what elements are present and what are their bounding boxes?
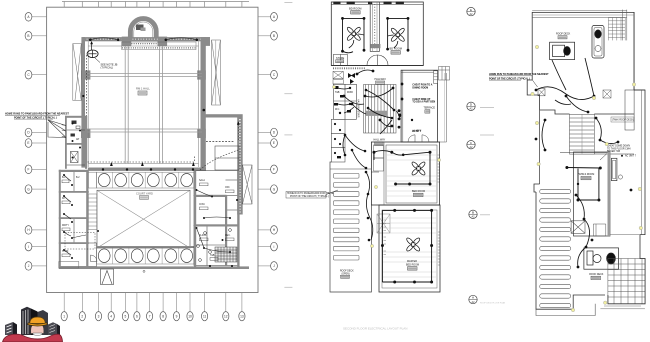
svg-text:HOME RUN TO PANELBOARD FROM TH: HOME RUN TO PANELBOARD FROM THE NEAREST	[489, 73, 549, 76]
east rooms outlet circles	[197, 229, 232, 262]
mid bottom rooms inner	[382, 145, 437, 288]
top grid line	[62, 1, 249, 3]
svg-text:10: 10	[188, 314, 192, 318]
whils wiring dots	[565, 166, 601, 202]
arch label blob	[136, 25, 144, 31]
svg-text:AC KIT 7: AC KIT 7	[412, 130, 422, 133]
svg-text:RM 1 HALL: RM 1 HALL	[136, 87, 150, 91]
left wall pilaster upper	[81, 70, 90, 79]
bathroom block	[584, 248, 619, 269]
hall beam horizontal 1	[85, 74, 202, 77]
grid bubble 11	[202, 293, 208, 321]
svg-text:7: 7	[149, 314, 151, 318]
main stair mid	[364, 85, 397, 134]
shaft footing hatch	[370, 44, 380, 48]
grid bubble 10	[187, 293, 193, 321]
see note label	[95, 58, 118, 70]
left cluster room lower	[66, 144, 86, 165]
top wall dotted texture	[84, 38, 209, 40]
svg-text:(OPEN): (OPEN)	[342, 273, 350, 275]
left strip fixtures	[334, 123, 341, 158]
parapet corner lines	[532, 10, 627, 41]
deck corridor dots	[365, 171, 371, 242]
stair right dots	[398, 109, 401, 128]
mid device dots	[343, 70, 414, 128]
svg-text:ROOF DECK: ROOF DECK	[589, 273, 604, 276]
grid bubble 12	[223, 293, 229, 321]
svg-text:CHEAT DOME DOWN: CHEAT DOME DOWN	[607, 145, 630, 148]
bottom numbered grid bubbles	[61, 293, 245, 321]
bed room 2F label	[412, 190, 425, 197]
grid bubble 7	[147, 293, 153, 321]
ceiling fan F3	[411, 161, 426, 176]
grid bubble 4	[108, 293, 114, 321]
svg-text:B: B	[472, 211, 474, 215]
west annex wires	[64, 175, 86, 255]
bedroom2F dots	[373, 151, 432, 186]
grid bubble 9	[173, 293, 179, 321]
svg-text:ROOF DECK FLOOR PLAN: ROOF DECK FLOOR PLAN	[480, 302, 506, 305]
lower deck boundary	[536, 192, 605, 309]
wiring lower right	[576, 195, 590, 267]
mid hallway strip closets	[374, 142, 385, 205]
fridge counter	[592, 26, 604, 59]
terrace strip east	[438, 73, 447, 142]
mid wires cluster	[344, 70, 393, 134]
corridor wire arrow	[237, 121, 240, 140]
home run note right	[489, 73, 549, 87]
logo building right	[48, 322, 60, 335]
svg-text:F: F	[28, 168, 30, 172]
roof deck label top	[556, 33, 571, 39]
svg-text:8: 8	[162, 314, 164, 318]
small circle below courtyard	[143, 270, 145, 272]
annex dashed circuit	[65, 233, 95, 250]
svg-text:F: F	[273, 168, 275, 172]
svg-text:STORE: STORE	[336, 57, 345, 60]
lower-left deck outline	[330, 162, 371, 292]
svg-text:KIT.: KIT.	[62, 198, 66, 200]
svg-text:REC.: REC.	[225, 235, 231, 237]
dining wire	[397, 111, 402, 120]
grid bubble 1	[61, 293, 67, 321]
roof parapet double top	[532, 14, 634, 16]
svg-text:I: I	[274, 245, 275, 249]
arcade dots top	[102, 168, 194, 170]
svg-text:3: 3	[98, 314, 100, 318]
svg-text:BD ROOM: BD ROOM	[349, 6, 361, 10]
master joists	[383, 218, 436, 277]
svg-text:POINT OF THE CIRCUIT ( TYPICAL: POINT OF THE CIRCUIT ( TYPICAL )	[489, 77, 530, 80]
courtyard rect	[97, 190, 190, 248]
grid bubble 8	[160, 293, 166, 321]
svg-text:E: E	[470, 8, 472, 12]
stair hatch west	[88, 194, 96, 230]
svg-text:CHEAT DIME UP: CHEAT DIME UP	[412, 98, 430, 101]
right wall pilaster lower	[197, 129, 206, 138]
master bed room label	[406, 260, 419, 270]
double door arcs	[367, 55, 388, 66]
dining right wall hatch	[434, 71, 438, 84]
svg-text:6: 6	[136, 314, 138, 318]
placeholder groups to fill	[5, 19, 252, 285]
left mid room labels	[335, 92, 353, 111]
svg-text:1: 1	[63, 314, 65, 318]
hall room label	[136, 87, 150, 96]
courtyard diagonals	[97, 190, 190, 248]
top wall column right	[158, 37, 168, 47]
svg-text:B: B	[273, 34, 275, 38]
left cluster room upper	[66, 117, 86, 144]
AC unit label	[621, 155, 637, 158]
roof deck slats mid	[334, 174, 360, 261]
section bubble B	[469, 210, 477, 219]
porch dotted band	[122, 44, 196, 48]
west annex rooms	[60, 171, 97, 267]
left cluster dots	[72, 123, 82, 159]
entrance triangle	[101, 269, 114, 285]
master window hatch right	[438, 232, 440, 265]
top-right stair hatch	[608, 18, 625, 41]
grid bubble J right	[258, 262, 277, 271]
roof deck label lower	[589, 273, 604, 280]
hatch X box lower	[571, 221, 585, 234]
whils room right wall	[608, 152, 611, 236]
svg-text:COM.: COM.	[199, 204, 205, 206]
svg-text:BD ROOM: BD ROOM	[390, 47, 402, 51]
right plan outer boundary	[527, 12, 645, 234]
step shape	[593, 224, 606, 236]
top porch dots wires	[90, 38, 197, 40]
roof deck label mid	[340, 271, 354, 279]
grid bubble C	[25, 70, 46, 79]
east rooms gray walls	[194, 171, 240, 267]
logo worker face	[31, 325, 44, 334]
grid bubble H	[25, 226, 46, 235]
svg-text:W.C.: W.C.	[335, 109, 340, 111]
svg-text:A: A	[472, 296, 474, 300]
master left window hatch	[384, 220, 387, 255]
east upper room	[215, 146, 239, 170]
right wall pilaster upper	[197, 70, 206, 79]
svg-text:POINT OF THE CIRCUIT ( TYPICAL: POINT OF THE CIRCUIT ( TYPICAL )	[290, 195, 329, 198]
grid bubble 3	[95, 293, 101, 321]
building bottom wall	[59, 266, 249, 269]
ceiling dots top wall	[82, 39, 205, 112]
bedroom2 label	[390, 47, 402, 55]
hall dashed circuit loop	[87, 55, 195, 162]
grid bubble A right	[258, 12, 277, 21]
window X box left edge	[538, 89, 545, 96]
mid bottom rooms outline	[371, 142, 440, 292]
grid bubble E	[25, 139, 46, 148]
svg-text:SECOND FLOOR ELECTRICAL LAYOUT: SECOND FLOOR ELECTRICAL LAYOUT PLAN	[343, 327, 407, 331]
svg-text:HALLWAY: HALLWAY	[375, 78, 387, 81]
annotation arrows	[48, 120, 66, 138]
wiring arcs right top	[536, 58, 618, 150]
hall beam vertical 1	[125, 46, 128, 164]
annex door arc	[91, 255, 98, 262]
master wiring dots	[381, 209, 433, 284]
bedroom joists	[387, 150, 436, 196]
svg-text:2: 2	[81, 314, 83, 318]
svg-text:(TANK ROOF DECK): (TANK ROOF DECK)	[612, 119, 634, 122]
right wall	[201, 37, 206, 168]
left annotation note text	[5, 113, 69, 120]
stair cross wires	[366, 90, 394, 118]
mid hall lower wires	[343, 135, 366, 168]
grid bubble 6	[134, 293, 140, 321]
junction box symbol	[87, 41, 98, 58]
master bedroom wiring	[382, 210, 431, 282]
right buttress wing	[212, 40, 221, 105]
hall beam horizontal 2	[85, 129, 202, 132]
grid bubble I right	[258, 242, 277, 251]
east rooms labels	[199, 179, 234, 260]
east upper dashed wires	[200, 150, 238, 170]
cheat note 1	[412, 84, 432, 90]
whils room wiring loop	[567, 168, 600, 201]
exhaust fan marks	[348, 73, 355, 84]
bottom-right stairs	[608, 259, 645, 304]
porch outline	[122, 42, 196, 50]
svg-text:ROOF DECK: ROOF DECK	[556, 33, 571, 36]
left grid bubbles column	[25, 12, 46, 270]
mid wall under bedrooms	[331, 65, 423, 67]
courtyard top arcade wall	[88, 168, 206, 171]
logo building left	[5, 322, 17, 335]
east rooms wires	[197, 190, 231, 252]
yellow receptacles mid	[332, 85, 440, 247]
svg-text:B: B	[27, 34, 29, 38]
east rooms block	[194, 171, 239, 266]
faint ticks right margin	[480, 108, 494, 215]
faint tick marks column	[284, 3, 292, 288]
svg-text:5: 5	[125, 314, 127, 318]
grid bubble G right	[258, 185, 277, 194]
svg-text:DIRTY: DIRTY	[62, 225, 69, 227]
left strip wires upper	[338, 88, 354, 113]
grid bubble B	[25, 32, 46, 41]
roof deck slats right	[540, 189, 571, 307]
right grid bubbles column	[258, 12, 277, 270]
left wall	[81, 37, 85, 168]
svg-text:OFF.: OFF.	[225, 187, 230, 189]
svg-text:DINING ROOM: DINING ROOM	[412, 87, 428, 89]
right plan mid walls	[540, 110, 635, 154]
grid bubble 13	[239, 293, 245, 321]
yellow receptacles right	[531, 45, 643, 311]
grid bubble C right	[258, 70, 277, 79]
corridor dashed wire	[206, 141, 234, 143]
svg-text:11: 11	[203, 314, 207, 318]
svg-text:BED ROOM: BED ROOM	[412, 190, 425, 193]
left stair block	[333, 71, 343, 84]
svg-text:SALA: SALA	[199, 179, 205, 182]
svg-text:WHILS ROOM: WHILS ROOM	[579, 173, 595, 176]
section bubble E	[467, 7, 475, 16]
svg-text:12: 12	[224, 314, 228, 318]
corridor wall right	[204, 114, 242, 214]
top wall band	[82, 37, 210, 41]
upper-right corner room	[439, 67, 450, 81]
top wall column left	[122, 37, 132, 47]
svg-text:HALL WAY: HALL WAY	[374, 139, 386, 142]
stair wire dots	[365, 89, 396, 120]
grid bubble D	[25, 128, 46, 137]
bedroom wiring loop left	[343, 18, 365, 52]
hall beam vertical 2	[160, 46, 163, 164]
circuit arrow dots bottom	[110, 162, 195, 166]
top arcade columns row	[97, 172, 195, 188]
top grid ticks	[64, 2, 242, 8]
svg-text:13: 13	[240, 314, 244, 318]
dots lower right	[575, 189, 633, 269]
grid bubble H right	[258, 226, 277, 235]
svg-text:TO THIS FLOOR CMH: TO THIS FLOOR CMH	[607, 148, 631, 150]
right wall corner block	[204, 37, 211, 46]
logo building mid-right	[38, 310, 49, 335]
tile hatch block	[215, 247, 237, 262]
device dots right top	[535, 89, 620, 152]
grid bubble B right	[258, 32, 277, 41]
logo hard hat	[28, 317, 47, 326]
ceiling fan F4	[406, 237, 421, 252]
west annex gray walls	[59, 170, 89, 268]
svg-text:AP: AP	[76, 138, 80, 141]
svg-text:I: I	[28, 245, 29, 249]
west annex dots	[63, 174, 99, 259]
section bubble A	[469, 295, 477, 304]
svg-text:BED ROOM: BED ROOM	[406, 264, 419, 267]
grid bubble I	[25, 242, 46, 251]
terrace mid boundary	[610, 234, 640, 236]
tank roof deck label	[611, 117, 634, 122]
inner wall verticals	[540, 90, 645, 184]
svg-text:CHEAT PION TO A: CHEAT PION TO A	[412, 84, 432, 87]
store label	[336, 57, 345, 63]
whils room label	[579, 173, 595, 180]
right dining room block	[401, 70, 437, 142]
kitchen counter with sink	[550, 42, 575, 59]
bottom arcade wall	[96, 246, 195, 248]
mid hall lower dots	[344, 134, 368, 170]
deck corridor wires	[366, 172, 373, 240]
svg-text:HOME RUNS TO PANELBOARD FROM T: HOME RUNS TO PANELBOARD FROM THE NEAREST	[5, 113, 69, 116]
left strip lower rooms	[331, 119, 345, 162]
left buttress wing	[73, 44, 82, 101]
left wall pilaster lower	[81, 129, 90, 138]
ceiling fan F1	[346, 26, 361, 41]
stair mid band hatch	[365, 111, 388, 116]
mid left note text	[286, 190, 342, 198]
grid bubble 5	[122, 293, 128, 321]
center shaft double wall	[370, 2, 379, 51]
courtyard label	[136, 191, 153, 199]
bottom porch extension	[536, 304, 645, 316]
grid bubble F right	[258, 165, 277, 174]
left strip fixtures upper	[334, 86, 351, 114]
cheat note right	[600, 145, 631, 161]
svg-text:POINT OF THE CIRCUIT ( TYPICAL: POINT OF THE CIRCUIT ( TYPICAL )	[14, 116, 57, 119]
bedroom wiring loop right	[388, 18, 408, 50]
water tank	[611, 158, 622, 180]
east rooms dots	[196, 189, 239, 267]
grid bubble J	[25, 262, 46, 271]
west annex labels	[62, 177, 80, 257]
section bubble C	[467, 141, 475, 150]
top wall window marks	[333, 2, 404, 5]
right plan lower-right boundary	[608, 235, 645, 304]
svg-text:M.BR: M.BR	[347, 92, 353, 94]
svg-text:E: E	[27, 141, 29, 145]
svg-text:COURT YARD: COURT YARD	[136, 191, 153, 195]
arcade end column	[89, 172, 97, 188]
svg-text:9: 9	[176, 314, 178, 318]
top block bottom dotted band	[333, 67, 366, 69]
bedroom window hatch right	[438, 155, 440, 182]
grid bubble A	[25, 12, 46, 21]
arch portico dome	[130, 19, 156, 39]
bedroom2F wiring	[374, 151, 430, 184]
svg-text:ROOF DECK: ROOF DECK	[340, 271, 354, 273]
left cluster gray walls	[65, 116, 87, 169]
master closet hatch	[377, 214, 390, 233]
grid bubble E right	[258, 139, 277, 148]
svg-text:4: 4	[110, 314, 112, 318]
east wing X brace	[243, 165, 253, 204]
svg-text:TO SEA A PART BEN: TO SEA A PART BEN	[412, 101, 435, 104]
bedroom1 label	[349, 6, 361, 14]
hall inner wall lines	[88, 41, 198, 167]
dining bottom doors	[408, 130, 429, 142]
ceiling fan F2	[390, 27, 405, 42]
left mid rooms	[333, 84, 356, 119]
bottom-left porch step	[59, 262, 79, 269]
svg-text:TERRACE: TERRACE	[424, 107, 436, 110]
hallway label	[375, 78, 387, 84]
hatch block small	[603, 90, 611, 98]
tank terrace boundary	[641, 90, 643, 235]
mid stair right plan	[570, 114, 595, 154]
dining labels	[424, 107, 436, 114]
bottom arcade columns row	[97, 247, 195, 264]
svg-text:T&B: T&B	[210, 255, 215, 257]
svg-text:T&B: T&B	[335, 92, 340, 94]
arch inner line	[134, 22, 153, 38]
logo tower tall	[21, 307, 38, 335]
sheet border	[47, 7, 258, 292]
svg-text:AC UNIT 7: AC UNIT 7	[625, 155, 637, 158]
left cluster panel marks	[71, 121, 81, 142]
grid bubble F	[25, 165, 46, 174]
grid bubble G	[25, 185, 46, 194]
section bubble D	[467, 102, 475, 111]
grid bubble 2	[79, 293, 85, 321]
whils room lower	[534, 152, 610, 236]
mid outer walls top block	[331, 2, 423, 66]
svg-text:E: E	[273, 141, 275, 145]
loop-to-fan arcs top rooms	[349, 34, 398, 48]
svg-text:(TYPICAL): (TYPICAL)	[101, 66, 114, 70]
grid bubble D right	[258, 128, 277, 137]
wiring dots top rooms	[341, 17, 409, 53]
logo collar	[33, 333, 42, 336]
cheat note 2	[412, 98, 435, 104]
logo red body banner	[3, 334, 63, 342]
store room	[333, 54, 347, 65]
hall way label lower	[374, 139, 386, 146]
